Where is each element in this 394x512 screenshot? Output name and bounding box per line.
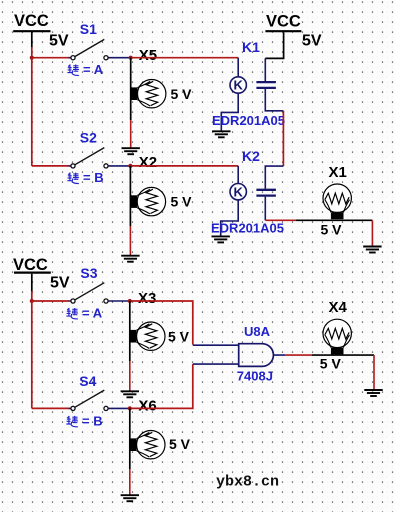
relay K1 contact pin top xyxy=(264,58,266,81)
ground (X3) xyxy=(121,391,139,397)
svg-text:S3: S3 xyxy=(80,265,97,281)
svg-text:K: K xyxy=(234,78,244,93)
svg-text:X2: X2 xyxy=(139,154,157,171)
wire node A1 down to S2 row xyxy=(31,58,33,166)
node junction A1 xyxy=(30,56,34,60)
svg-text:K: K xyxy=(234,184,244,199)
node junction X2 xyxy=(128,164,132,168)
wire gate output to lamp X4 xyxy=(285,354,312,356)
label key = B (S4) xyxy=(66,413,102,428)
wire to S2 xyxy=(32,165,69,167)
ground (K1) xyxy=(212,131,230,137)
svg-text:5 V: 5 V xyxy=(168,328,190,344)
node junction A3 xyxy=(30,299,34,303)
svg-text:VCC: VCC xyxy=(13,256,48,274)
lamp X6 xyxy=(130,431,165,459)
svg-text:= A: = A xyxy=(83,62,104,77)
relay K1 contact xyxy=(256,82,276,88)
svg-text:7408J: 7408J xyxy=(237,368,273,383)
ground (X1) xyxy=(363,247,381,253)
svg-text:= B: = B xyxy=(83,170,104,185)
node junction X6 xyxy=(128,406,132,410)
lamp X4 pins xyxy=(312,354,374,356)
lamp X5 xyxy=(131,80,166,108)
svg-text:= B: = B xyxy=(82,413,103,428)
lamp X2 xyxy=(130,187,165,215)
ground (X2) xyxy=(121,256,139,262)
svg-text:K2: K2 xyxy=(242,148,260,164)
svg-text:5 V: 5 V xyxy=(321,222,343,238)
svg-text:VCC: VCC xyxy=(266,12,301,30)
label key = A (S1) xyxy=(67,62,103,77)
svg-text:X4: X4 xyxy=(329,299,348,316)
wire X5 node to relay K1 coil xyxy=(132,57,238,59)
switch S3 xyxy=(69,283,130,303)
power VCC (bottom-left) xyxy=(13,256,51,291)
svg-text:S2: S2 xyxy=(80,130,97,146)
ground (X4) xyxy=(364,390,382,396)
svg-text:U8A: U8A xyxy=(244,324,271,339)
svg-text:EDR201A05: EDR201A05 xyxy=(211,221,284,236)
svg-text:5 V: 5 V xyxy=(171,86,193,102)
node junction X5 xyxy=(129,56,133,60)
relay K2 coil pin top xyxy=(237,166,239,184)
relay K2 contact xyxy=(256,190,276,196)
relay K1 coil pin top xyxy=(237,58,239,77)
wire lamp X1 to ground xyxy=(371,220,373,246)
wire node A1 to S1 xyxy=(32,57,69,59)
wire X3 node down to lamp X3 xyxy=(129,301,131,361)
relay K2 coil xyxy=(230,184,246,200)
svg-text:ybx8.cn: ybx8.cn xyxy=(216,474,279,491)
svg-text:= A: = A xyxy=(82,305,103,320)
ground (K2) xyxy=(212,236,230,242)
svg-text:K1: K1 xyxy=(242,39,260,55)
lamp X1 pins xyxy=(296,219,372,221)
svg-text:VCC: VCC xyxy=(14,12,49,30)
wire X2 node to relay K2 coil xyxy=(132,165,238,167)
wire lamp X6 to ground xyxy=(129,469,131,495)
wire VCC3 to node A3 xyxy=(31,291,33,301)
svg-text:EDR201A05: EDR201A05 xyxy=(212,113,285,128)
label key = B (S2) xyxy=(67,170,103,185)
power VCC (top-left) xyxy=(13,12,50,48)
lamp X3 xyxy=(130,322,165,350)
wire to S4 xyxy=(32,407,69,409)
relay K2 contact pin top xyxy=(265,166,283,189)
svg-text:S4: S4 xyxy=(79,373,96,389)
svg-text:5V: 5V xyxy=(50,275,70,292)
AND gate U8A body xyxy=(239,344,274,367)
wire X6 node down to lamp X6 xyxy=(129,408,131,469)
power VCC (top-right) xyxy=(265,12,301,58)
node junction X3 xyxy=(128,299,132,303)
wire X3 node to gate input 1 xyxy=(131,301,193,345)
svg-text:5 V: 5 V xyxy=(169,436,191,452)
relay K1 coil pin bottom to ground xyxy=(221,93,238,130)
ground (X5) xyxy=(122,148,140,154)
wire X6 node to gate input 2 xyxy=(131,364,193,408)
switch S4 xyxy=(69,390,130,410)
wire X5 node down to lamp X5 xyxy=(130,58,132,120)
svg-text:X5: X5 xyxy=(139,47,157,64)
wire VCC1 to node A1 xyxy=(31,47,33,58)
svg-text:5 V: 5 V xyxy=(320,355,342,371)
relay K2 coil pin bottom to ground xyxy=(221,200,239,236)
wire node A3 down to S4 row xyxy=(31,301,33,408)
lamp X4 xyxy=(323,319,351,354)
wire K1 contact to K2 contact xyxy=(282,111,284,166)
wire lamp X4 to ground xyxy=(373,355,375,389)
wire node A3 to S3 xyxy=(32,300,69,302)
ground (X6) xyxy=(121,495,139,501)
relay K1 coil xyxy=(230,77,246,93)
svg-text:X3: X3 xyxy=(138,290,156,307)
relay K2 contact pin bottom xyxy=(264,197,266,221)
lamp X1 xyxy=(323,184,351,219)
relay K1 contact pin bottom xyxy=(265,89,283,111)
wire lamp X2 to ground xyxy=(129,226,131,255)
svg-text:X1: X1 xyxy=(329,164,347,181)
label key = A (S3) xyxy=(66,305,102,320)
svg-text:5V: 5V xyxy=(302,32,322,49)
wire lamp X5 to ground xyxy=(130,120,132,148)
switch S2 xyxy=(69,148,130,168)
AND gate output pin xyxy=(274,354,286,356)
switch S1 xyxy=(69,39,130,59)
svg-text:S1: S1 xyxy=(80,21,97,37)
svg-text:X6: X6 xyxy=(138,398,156,415)
wire X2 node down to lamp X2 xyxy=(129,166,131,226)
wire K2 contact to lamp X1 xyxy=(265,219,296,221)
svg-text:5 V: 5 V xyxy=(171,194,193,210)
AND gate U8A input pins xyxy=(193,345,239,364)
svg-text:5V: 5V xyxy=(49,32,69,49)
wire lamp X3 to ground xyxy=(129,361,131,391)
